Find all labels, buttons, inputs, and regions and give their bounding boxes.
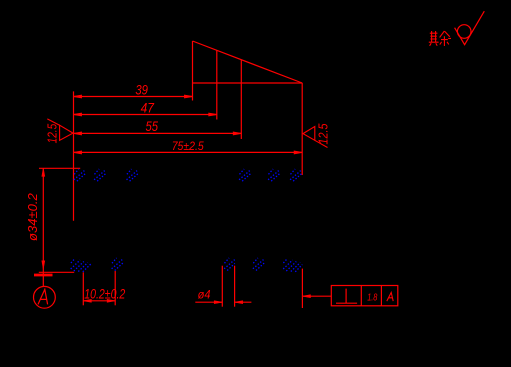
right roughness symbol 12.5 xyxy=(303,127,328,148)
arrow 75 right xyxy=(294,151,302,154)
wedge left edge xyxy=(192,41,194,101)
phi34 dimension vertical line xyxy=(42,168,44,286)
dimension 75 line xyxy=(74,151,303,153)
phi4 arrow right xyxy=(235,301,243,304)
hatch top C xyxy=(127,169,139,181)
arrow 47 right xyxy=(209,113,217,116)
hatch bottom D xyxy=(253,258,265,271)
tolerance datum letter A xyxy=(387,293,393,302)
10.2 dimension line xyxy=(83,300,115,302)
phi4 dimension left tail xyxy=(195,301,222,303)
phi34 arrow top xyxy=(42,168,45,176)
hatch bottom E wide xyxy=(283,258,302,272)
hatch top F xyxy=(290,169,302,181)
svg-text:75±2.5: 75±2.5 xyxy=(172,139,204,153)
arrow 55 left xyxy=(74,132,82,135)
arrow 39 right xyxy=(185,95,193,98)
svg-text:10.2±0.2: 10.2±0.2 xyxy=(84,286,125,302)
hatch groups top band xyxy=(74,169,302,181)
10.2 extension line right xyxy=(114,271,116,305)
datum circle xyxy=(34,286,56,308)
tolerance leader line xyxy=(302,295,331,297)
wedge bottom line xyxy=(193,82,303,84)
svg-text:39: 39 xyxy=(135,83,148,98)
svg-text:47: 47 xyxy=(141,101,155,116)
tolerance frame box xyxy=(331,286,398,306)
svg-text:12.5: 12.5 xyxy=(316,123,331,145)
hatch groups bottom band xyxy=(71,258,303,272)
tolerance leader arrow xyxy=(302,295,310,298)
part right edge lower segment xyxy=(301,269,303,308)
phi34 top extension line xyxy=(39,167,80,169)
other-surfaces roughness check symbol xyxy=(455,11,485,45)
hatch top E xyxy=(268,169,280,181)
dimension 39 line xyxy=(74,96,193,98)
part right edge upper segment xyxy=(301,83,303,175)
hatch bottom A wide xyxy=(71,258,91,272)
char 其 xyxy=(429,31,439,46)
10.2 arrow right xyxy=(107,299,115,302)
datum bar xyxy=(34,274,53,277)
dimension 47 line xyxy=(74,114,217,116)
arrow 39 left xyxy=(74,95,82,98)
hatch top B xyxy=(94,169,106,181)
phi4 hole left line xyxy=(221,266,223,307)
svg-text:55: 55 xyxy=(146,119,159,134)
arrow 55 right xyxy=(233,132,241,135)
wedge inner vertical v1 xyxy=(216,50,218,119)
phi4 arrow left xyxy=(214,301,222,304)
left roughness symbol 12.5 xyxy=(47,119,73,140)
hatch top A xyxy=(74,169,86,181)
char 余 xyxy=(440,31,451,46)
hatch top D xyxy=(239,169,251,181)
arrow 47 left xyxy=(74,113,82,116)
datum letter A xyxy=(38,289,48,304)
phi34 bottom extension / bottom surface line xyxy=(39,271,74,273)
svg-text:12.5: 12.5 xyxy=(45,123,60,143)
wedge slant xyxy=(193,41,303,83)
phi34 arrow bottom xyxy=(42,261,45,269)
svg-text:ø34±0.2: ø34±0.2 xyxy=(25,192,40,241)
hatch bottom B xyxy=(112,258,124,271)
wedge inner vertical v2 xyxy=(240,60,242,139)
10.2 arrow left xyxy=(83,299,91,302)
part left edge xyxy=(73,91,75,220)
svg-text:1.8: 1.8 xyxy=(367,292,378,303)
phi4 dimension right tail xyxy=(235,301,252,303)
perpendicularity symbol xyxy=(336,289,357,304)
arrow 75 left xyxy=(74,151,82,154)
svg-text:ø4: ø4 xyxy=(198,290,211,302)
10.2 extension line left xyxy=(82,272,84,305)
dimension 55 line xyxy=(74,132,242,134)
phi4 hole right line xyxy=(234,266,236,307)
hatch bottom C xyxy=(224,258,235,271)
